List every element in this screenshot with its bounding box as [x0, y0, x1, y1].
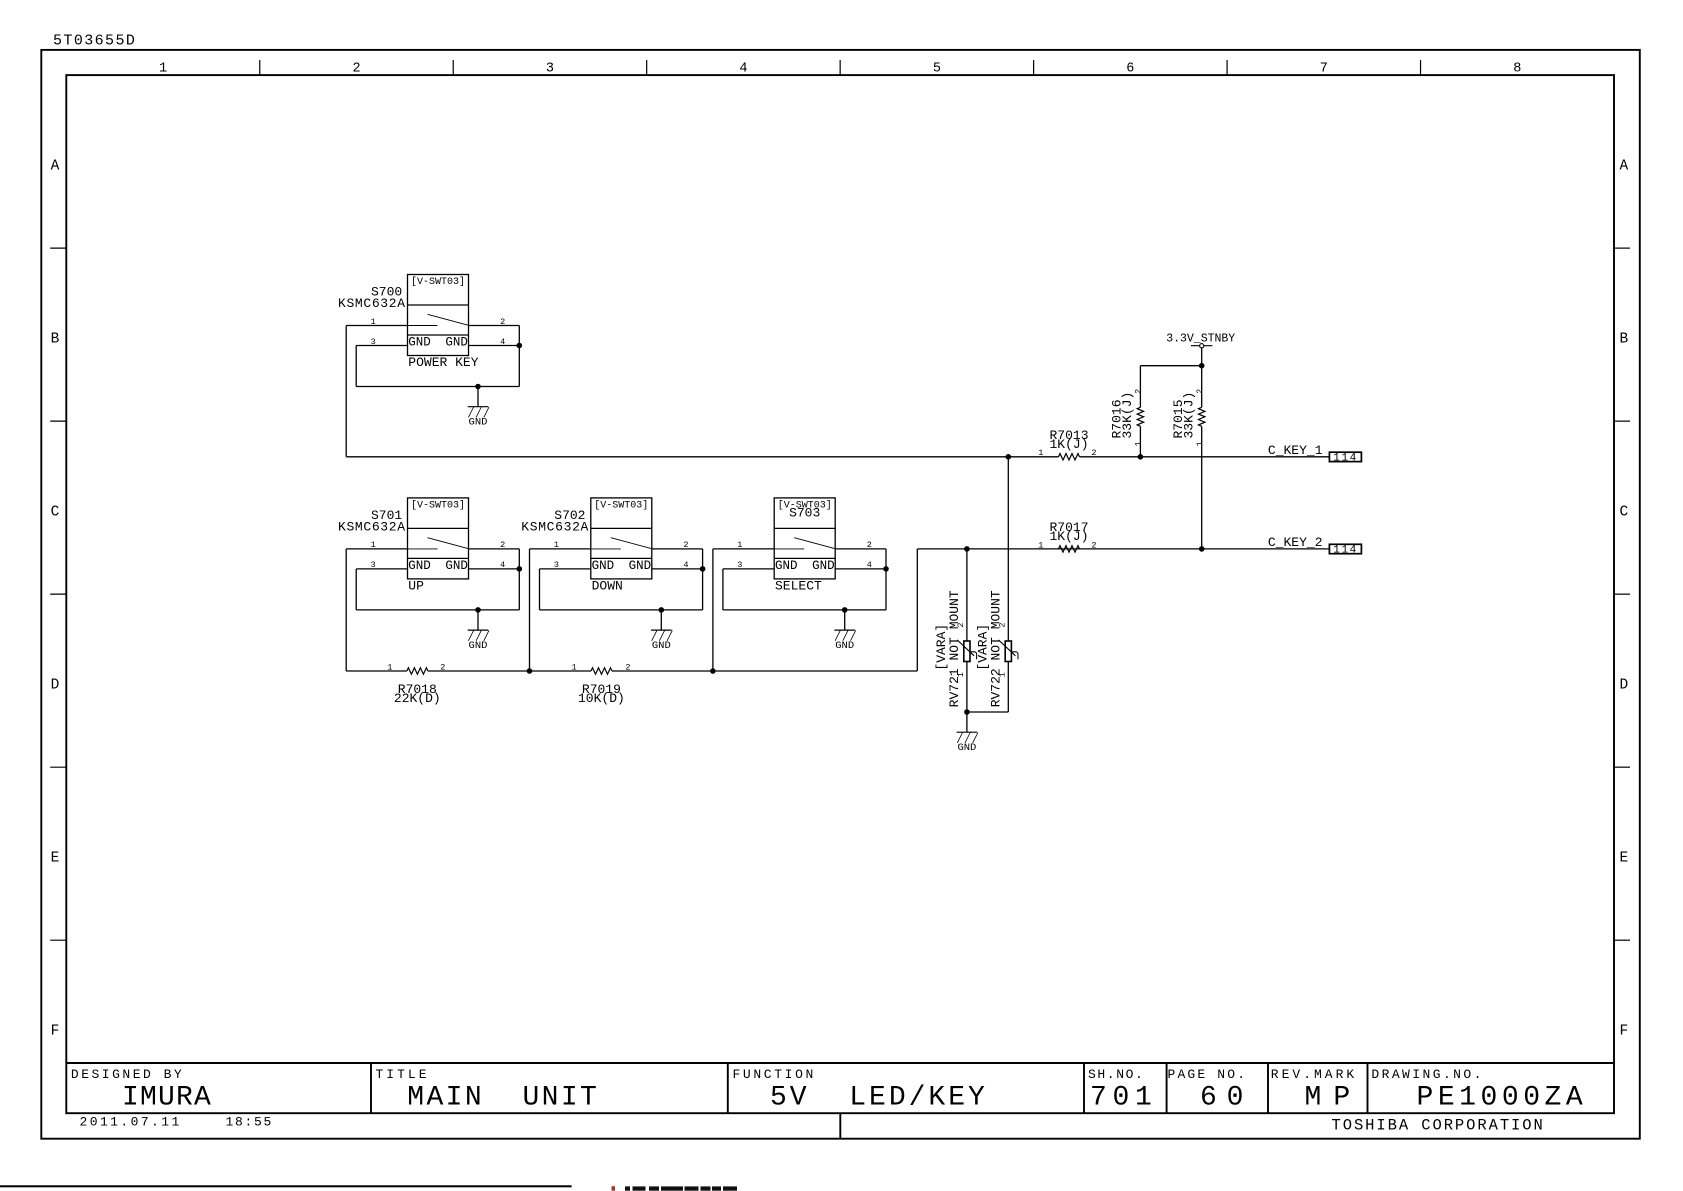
svg-text:2: 2 — [1134, 389, 1144, 394]
switch S702 box — [591, 498, 652, 579]
svg-text:GND: GND — [445, 559, 468, 573]
junction S702 ground tap — [659, 607, 665, 613]
svg-text:2: 2 — [352, 62, 360, 77]
switch S703 pin 3 — [723, 560, 774, 570]
wire S703 ground run — [723, 609, 886, 611]
svg-text:DESIGNED BY: DESIGNED BY — [71, 1067, 184, 1082]
svg-text:3: 3 — [546, 62, 554, 77]
row letters A-F left — [51, 159, 60, 1040]
svg-text:[V-SWT03]: [V-SWT03] — [411, 276, 465, 288]
junction bus S702 pin1 — [527, 668, 533, 674]
wire S700 ground run — [356, 386, 519, 388]
svg-text:1: 1 — [371, 540, 376, 550]
switch S701 pin 4 — [469, 560, 520, 570]
svg-text:2: 2 — [956, 622, 966, 627]
svg-text:60: 60 — [1200, 1082, 1253, 1113]
wire RV722 top from C_KEY_1 — [1007, 457, 1009, 641]
svg-text:C_KEY_1: C_KEY_1 — [1268, 443, 1323, 458]
bottom clipped print marks — [612, 1186, 738, 1191]
svg-text:1: 1 — [998, 672, 1008, 677]
ground at S701 — [468, 610, 489, 652]
switch S701 box — [408, 498, 469, 579]
row zone ticks left — [50, 248, 66, 940]
wire RV721 top — [966, 549, 968, 641]
svg-text:1: 1 — [387, 662, 392, 672]
svg-text:1: 1 — [956, 672, 966, 677]
switch S702 pin 4 — [652, 560, 703, 570]
junction at S701 pin 4 — [517, 566, 523, 572]
date stamp — [80, 1115, 274, 1130]
wire S703 pin3 down — [722, 569, 724, 610]
junction RV ground node — [964, 709, 970, 715]
ground at S702 — [651, 610, 672, 652]
svg-text:GND: GND — [408, 559, 431, 573]
junction S701 ground tap — [475, 607, 481, 613]
off-page connector 114 (C_KEY_2) — [1329, 544, 1361, 556]
svg-text:2: 2 — [500, 540, 505, 550]
svg-text:C: C — [51, 505, 60, 521]
date row divider — [839, 1113, 841, 1139]
svg-text:TITLE: TITLE — [376, 1067, 430, 1082]
switch S700 box — [408, 275, 469, 356]
svg-text:8: 8 — [1513, 62, 1521, 77]
wire S700 pin3 down — [355, 346, 357, 387]
wire S701 pin1 down to bus — [345, 549, 347, 671]
svg-text:1K(J): 1K(J) — [1049, 529, 1088, 544]
svg-text:A: A — [51, 159, 60, 175]
svg-text:D: D — [1619, 678, 1628, 694]
svg-text:GND: GND — [957, 742, 976, 754]
wire bus segment R7019 to riser — [612, 670, 917, 672]
title block small headers — [71, 1067, 1484, 1082]
label RV721 — [934, 590, 966, 707]
switch S700 pin 2 — [469, 317, 520, 327]
svg-text:RV722 NOT MOUNT: RV722 NOT MOUNT — [989, 590, 1004, 707]
svg-text:A: A — [1619, 159, 1628, 175]
svg-text:4: 4 — [500, 337, 505, 347]
junction at S700 pin 4 — [517, 343, 523, 349]
svg-text:1K(J): 1K(J) — [1049, 437, 1088, 452]
resistor R7015 — [1171, 366, 1205, 549]
svg-text:S703: S703 — [789, 506, 820, 521]
wire S702 pin1 down to bus — [529, 549, 531, 671]
svg-text:2: 2 — [1091, 540, 1096, 550]
svg-text:4: 4 — [867, 560, 872, 570]
svg-text:GND: GND — [652, 640, 671, 652]
switch S700 pin 3 — [356, 337, 407, 347]
switch S700 reference label — [338, 285, 406, 311]
svg-text:5: 5 — [933, 62, 941, 77]
switch S702 pin 1 — [530, 540, 591, 550]
ground at varistors — [957, 712, 978, 754]
svg-text:E: E — [1619, 851, 1628, 867]
switch S701 pin 3 — [356, 560, 407, 570]
title block values — [122, 1082, 1587, 1113]
row zone ticks right — [1614, 248, 1630, 940]
svg-text:[V-SWT03]: [V-SWT03] — [594, 499, 648, 511]
junction C_KEY_2 / RV721 — [964, 546, 970, 552]
svg-text:[V-SWT03]: [V-SWT03] — [411, 499, 465, 511]
junction S703 ground tap — [842, 607, 848, 613]
svg-text:B: B — [1619, 332, 1628, 348]
wire C_KEY_1 to R7013 — [1008, 456, 1058, 458]
ground at S700 — [468, 387, 489, 429]
svg-text:3: 3 — [371, 560, 376, 570]
wire S701 pin3 down — [355, 569, 357, 610]
wire C_KEY_1 to connector 114 — [1080, 456, 1330, 458]
svg-text:C_KEY_2: C_KEY_2 — [1268, 535, 1323, 550]
junction at S703 pin 4 — [883, 566, 889, 572]
switch S702 pin 3 — [540, 560, 591, 570]
wire S700 pin1 down to C_KEY_1 rail — [345, 326, 347, 457]
switch S701 pin 2 — [469, 540, 520, 550]
wire C_KEY_1 long rail from S700 — [346, 456, 1008, 458]
switch S703 pin 1 — [713, 540, 774, 550]
svg-text:POWER KEY: POWER KEY — [408, 355, 478, 370]
svg-text:MP: MP — [1305, 1082, 1363, 1113]
wire bus left segment — [346, 670, 407, 672]
wire RV721 bottom — [966, 662, 968, 713]
wire S700 pin2/pin4 down — [518, 326, 520, 387]
svg-text:22K(D): 22K(D) — [394, 691, 441, 706]
svg-text:IMURA: IMURA — [122, 1082, 212, 1113]
svg-text:4: 4 — [500, 560, 505, 570]
svg-text:GND: GND — [445, 336, 468, 350]
svg-text:KSMC632A: KSMC632A — [338, 519, 406, 534]
svg-text:2: 2 — [500, 317, 505, 327]
wire S703 pin1 down to bus — [712, 549, 714, 671]
svg-text:1: 1 — [1038, 448, 1043, 458]
svg-text:1: 1 — [1134, 441, 1144, 446]
wire riser to RV721 node — [917, 548, 967, 550]
switch S703 pin 2 — [835, 540, 886, 550]
wire bus riser up to C_KEY_2 — [916, 549, 918, 671]
svg-text:GND: GND — [835, 640, 854, 652]
svg-text:GND: GND — [469, 417, 488, 429]
svg-text:2: 2 — [1195, 389, 1205, 394]
junction S700 ground tap — [475, 384, 481, 390]
resistor R7013 — [1038, 428, 1096, 460]
svg-text:6: 6 — [1126, 62, 1134, 77]
svg-text:18:55: 18:55 — [226, 1115, 274, 1130]
svg-text:4: 4 — [739, 62, 747, 77]
svg-text:GND: GND — [775, 559, 798, 573]
power symbol 3.3V_STNBY — [1166, 333, 1235, 366]
wire C_KEY_2 rail — [967, 548, 1330, 550]
off-page connector 114 (C_KEY_1) — [1329, 452, 1361, 464]
svg-text:5T03655D: 5T03655D — [53, 32, 136, 49]
svg-text:TOSHIBA CORPORATION: TOSHIBA CORPORATION — [1332, 1117, 1545, 1135]
svg-text:DRAWING.NO.: DRAWING.NO. — [1371, 1067, 1483, 1082]
svg-text:1: 1 — [1038, 540, 1043, 550]
svg-text:1: 1 — [554, 540, 559, 550]
switch S701 pin 1 — [346, 540, 407, 550]
junction C_KEY_1 / R7016 — [1138, 454, 1144, 460]
junction at S702 pin 4 — [700, 566, 706, 572]
junction bus S703 pin1 — [710, 668, 716, 674]
wire bus segment R7018 to S702 drop — [428, 670, 591, 672]
switch S703 box — [774, 498, 835, 579]
varistor RV721 — [957, 640, 977, 662]
svg-text:B: B — [51, 332, 60, 348]
svg-text:GND: GND — [408, 336, 431, 350]
svg-text:33K(J): 33K(J) — [1120, 392, 1135, 439]
switch S702 pin 2 — [652, 540, 703, 550]
svg-text:E: E — [51, 851, 60, 867]
svg-text:F: F — [51, 1024, 60, 1040]
svg-text:2: 2 — [867, 540, 872, 550]
svg-text:10K(D): 10K(D) — [578, 691, 625, 706]
svg-text:DOWN: DOWN — [592, 579, 623, 594]
svg-text:1: 1 — [571, 662, 576, 672]
svg-text:7: 7 — [1320, 62, 1328, 77]
resistor R7017 — [1038, 520, 1096, 552]
junction C_KEY_1 / RV722 — [1006, 454, 1012, 460]
svg-text:MAIN UNIT: MAIN UNIT — [407, 1082, 599, 1113]
svg-text:RV721 NOT MOUNT: RV721 NOT MOUNT — [947, 590, 962, 707]
switch S700 pin 4 — [469, 337, 520, 347]
svg-text:SELECT: SELECT — [775, 579, 822, 594]
svg-text:1: 1 — [371, 317, 376, 327]
svg-text:GND: GND — [469, 640, 488, 652]
svg-text:GND: GND — [629, 559, 652, 573]
wire RV joining run — [967, 711, 1008, 713]
svg-text:114: 114 — [1333, 545, 1358, 557]
ground at S703 — [834, 610, 855, 652]
svg-text:D: D — [51, 678, 60, 694]
svg-text:5V LED/KEY: 5V LED/KEY — [770, 1082, 988, 1113]
svg-text:PE1000ZA: PE1000ZA — [1417, 1082, 1588, 1113]
svg-text:1: 1 — [1195, 441, 1205, 446]
wire S702 pin3 down — [539, 569, 541, 610]
bottom rule mark — [0, 1185, 572, 1187]
title block cell dividers — [371, 1063, 1368, 1113]
svg-text:GND: GND — [592, 559, 615, 573]
wire RV722 bottom — [1007, 662, 1009, 713]
wire S701 pin2/pin4 down — [518, 549, 520, 610]
svg-text:701: 701 — [1090, 1082, 1158, 1113]
svg-text:2: 2 — [998, 622, 1008, 627]
switch S701 reference label — [338, 508, 406, 534]
junction C_KEY_2 / R7015 — [1199, 546, 1205, 552]
svg-text:KSMC632A: KSMC632A — [521, 519, 589, 534]
svg-text:1: 1 — [737, 540, 742, 550]
wire S701 ground run — [356, 609, 519, 611]
label RV722 — [975, 590, 1007, 707]
switch S703 pin 4 — [835, 560, 886, 570]
wire S702 ground run — [540, 609, 703, 611]
svg-text:3: 3 — [371, 337, 376, 347]
svg-text:33K(J): 33K(J) — [1181, 392, 1196, 439]
svg-text:UP: UP — [408, 579, 424, 594]
svg-text:2011.07.11: 2011.07.11 — [80, 1115, 182, 1130]
column numbers 1-8 — [159, 62, 1521, 77]
svg-text:2: 2 — [683, 540, 688, 550]
svg-text:GND: GND — [812, 559, 835, 573]
switch S702 reference label — [521, 508, 589, 534]
svg-text:KSMC632A: KSMC632A — [338, 296, 406, 311]
svg-text:4: 4 — [683, 560, 688, 570]
wire supply node to R7016 — [1140, 365, 1201, 367]
svg-text:SH.NO.: SH.NO. — [1088, 1067, 1144, 1082]
svg-text:114: 114 — [1333, 452, 1358, 464]
resistor R7018 — [387, 662, 445, 706]
title block top line — [66, 1062, 1614, 1064]
svg-text:PAGE NO.: PAGE NO. — [1168, 1067, 1248, 1082]
svg-text:3: 3 — [554, 560, 559, 570]
junction supply node — [1199, 363, 1205, 369]
varistor RV722 — [999, 640, 1019, 662]
switch S700 pin 1 — [346, 317, 407, 327]
svg-text:3: 3 — [737, 560, 742, 570]
svg-text:F: F — [1619, 1024, 1628, 1040]
svg-text:1: 1 — [159, 62, 167, 77]
svg-text:C: C — [1619, 505, 1628, 521]
resistor R7019 — [571, 662, 630, 706]
svg-text:REV.MARK: REV.MARK — [1271, 1067, 1357, 1082]
wire S703 pin2/pin4 down — [885, 549, 887, 610]
row letters A-F right — [1619, 159, 1628, 1040]
svg-text:FUNCTION: FUNCTION — [733, 1067, 816, 1082]
resistor R7016 — [1110, 366, 1144, 457]
wire S702 pin2/pin4 down — [702, 549, 704, 610]
column zone ticks top — [260, 60, 1421, 75]
